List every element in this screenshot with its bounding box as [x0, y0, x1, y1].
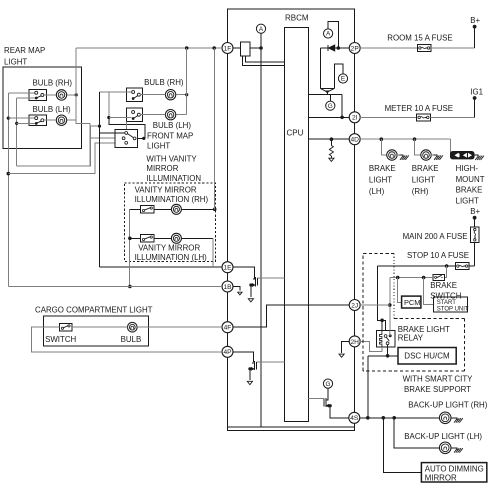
svg-text:BACK-UP LIGHT (RH): BACK-UP LIGHT (RH)	[408, 401, 487, 410]
svg-text:MOUNT: MOUNT	[456, 175, 485, 184]
svg-text:MIRROR: MIRROR	[425, 474, 457, 483]
svg-text:4F: 4F	[224, 325, 232, 332]
svg-text:BRAKE: BRAKE	[430, 281, 457, 290]
svg-text:MAIN 200 A FUSE: MAIN 200 A FUSE	[403, 232, 468, 241]
svg-text:1F: 1F	[224, 45, 232, 52]
svg-text:LIGHT: LIGHT	[369, 175, 392, 184]
svg-text:CPU: CPU	[287, 129, 304, 138]
svg-text:B+: B+	[470, 207, 480, 216]
svg-text:G: G	[326, 381, 331, 388]
svg-text:BACK-UP LIGHT (LH): BACK-UP LIGHT (LH)	[404, 432, 482, 441]
svg-text:VANITY MIRROR: VANITY MIRROR	[135, 185, 197, 194]
svg-text:AUTO DIMMING: AUTO DIMMING	[425, 465, 484, 474]
svg-text:WITH SMART CITY: WITH SMART CITY	[403, 374, 474, 383]
svg-text:1E: 1E	[223, 265, 232, 272]
svg-text:RELAY: RELAY	[398, 333, 424, 342]
svg-text:VANITY MIRROR: VANITY MIRROR	[138, 244, 200, 253]
svg-text:1B: 1B	[223, 284, 232, 291]
svg-text:G: G	[328, 103, 333, 110]
svg-text:LIGHT: LIGHT	[456, 196, 479, 205]
svg-text:WITH VANITY: WITH VANITY	[146, 154, 197, 163]
svg-text:4D: 4D	[350, 137, 359, 144]
svg-text:START: START	[437, 300, 456, 306]
svg-text:LIGHT: LIGHT	[412, 175, 435, 184]
svg-text:4P: 4P	[223, 349, 232, 356]
svg-text:HIGH-: HIGH-	[456, 164, 479, 173]
svg-text:A: A	[259, 26, 264, 33]
svg-text:ILLUMINATION: ILLUMINATION	[146, 174, 201, 183]
svg-text:BULB (RH): BULB (RH)	[144, 78, 184, 87]
svg-text:4S: 4S	[350, 415, 359, 422]
svg-text:2J: 2J	[351, 302, 358, 309]
svg-text:DSC HU/CM: DSC HU/CM	[404, 352, 450, 361]
svg-text:CARGO COMPARTMENT LIGHT: CARGO COMPARTMENT LIGHT	[35, 305, 153, 314]
svg-text:E: E	[341, 76, 345, 83]
svg-text:RBCM: RBCM	[285, 14, 309, 23]
svg-text:MIRROR: MIRROR	[146, 164, 178, 173]
svg-text:LIGHT: LIGHT	[4, 58, 27, 67]
svg-text:BRAKE: BRAKE	[412, 164, 439, 173]
svg-text:BRAKE SUPPORT: BRAKE SUPPORT	[404, 385, 471, 394]
svg-text:2P: 2P	[351, 45, 360, 52]
svg-text:BRAKE: BRAKE	[456, 186, 483, 195]
svg-text:A: A	[326, 31, 331, 38]
svg-text:2H: 2H	[350, 339, 359, 346]
svg-text:BULB (RH): BULB (RH)	[33, 78, 73, 87]
svg-text:BRAKE: BRAKE	[369, 164, 396, 173]
svg-text:FRONT MAP: FRONT MAP	[147, 132, 193, 141]
svg-text:ILLUMINATION (LH): ILLUMINATION (LH)	[135, 253, 208, 262]
svg-text:ROOM 15 A FUSE: ROOM 15 A FUSE	[387, 34, 452, 43]
svg-text:ILLUMINATION (RH): ILLUMINATION (RH)	[135, 195, 209, 204]
svg-text:BULB (LH): BULB (LH)	[153, 121, 192, 130]
svg-text:REAR MAP: REAR MAP	[4, 46, 45, 55]
svg-text:SWITCH: SWITCH	[45, 335, 76, 344]
svg-text:STOP UNIT: STOP UNIT	[437, 307, 469, 313]
svg-text:PCM: PCM	[404, 298, 420, 307]
svg-text:(RH): (RH)	[412, 187, 429, 196]
svg-text:BULB: BULB	[121, 335, 142, 344]
svg-text:BULB (LH): BULB (LH)	[33, 105, 72, 114]
svg-text:(LH): (LH)	[369, 187, 385, 196]
svg-text:IG1: IG1	[470, 88, 483, 97]
svg-text:B+: B+	[470, 16, 480, 25]
svg-text:LIGHT: LIGHT	[147, 142, 170, 151]
svg-text:METER 10 A FUSE: METER 10 A FUSE	[385, 104, 453, 113]
svg-text:STOP 10 A FUSE: STOP 10 A FUSE	[407, 251, 469, 260]
svg-text:2I: 2I	[352, 115, 358, 122]
